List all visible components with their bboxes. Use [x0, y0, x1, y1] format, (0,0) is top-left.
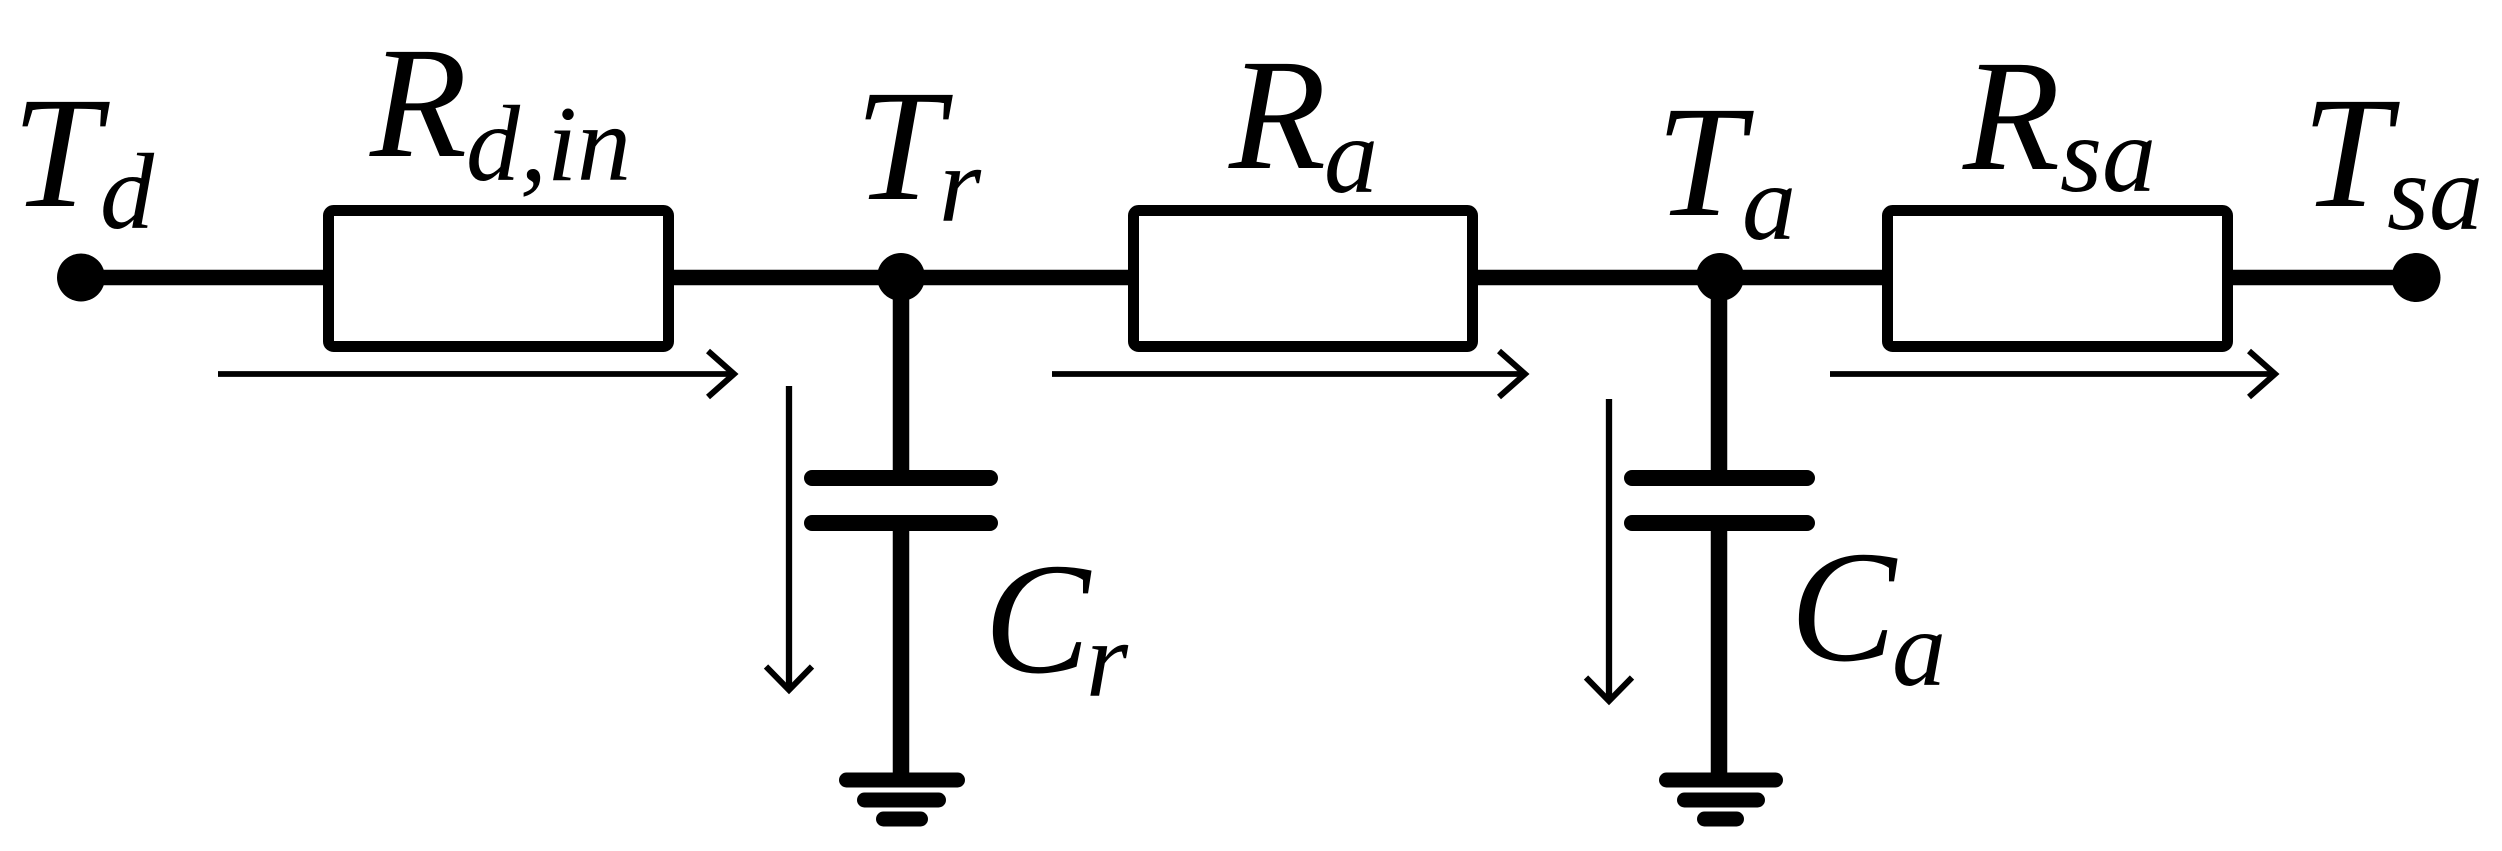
wire R_a to R_sa through node Ta	[1471, 270, 1889, 286]
heat flow arrow into Cr	[766, 386, 812, 690]
svg-text:sa: sa	[2387, 134, 2483, 253]
svg-text:C: C	[1790, 519, 1898, 695]
svg-text:d,in: d,in	[466, 85, 631, 204]
node Td terminal dot	[57, 254, 105, 302]
capacitor label Ca	[1790, 519, 1946, 709]
node Tr junction dot	[877, 253, 925, 301]
resistor label R_d,in	[369, 15, 631, 204]
svg-text:d: d	[100, 133, 155, 252]
wire node Ta down to capacitor Ca	[1711, 277, 1728, 474]
resistor R_a	[1134, 211, 1473, 347]
resistor R_sa	[1888, 211, 2228, 347]
node label Ta	[1656, 74, 1796, 263]
wire R_d,in to R_a through node Tr	[667, 270, 1135, 286]
heat flow arrow through R_a	[1052, 351, 1525, 397]
wire capacitor Cr down to ground	[893, 527, 910, 779]
svg-text:r: r	[939, 126, 982, 245]
svg-text:sa: sa	[2060, 96, 2156, 215]
heat flow arrow into Ca	[1586, 399, 1632, 701]
capacitor Cr bottom plate	[812, 515, 990, 531]
svg-text:R: R	[1962, 28, 2060, 204]
node label Td	[12, 65, 155, 252]
svg-text:T: T	[2302, 65, 2400, 241]
resistor R_d,in	[329, 211, 669, 347]
heat flow arrow through R_d,in	[218, 351, 734, 397]
wire capacitor Ca down to ground	[1711, 527, 1728, 779]
resistor label Ra	[1228, 27, 1378, 216]
node label Tr	[855, 58, 982, 245]
node label Tsa	[2302, 65, 2483, 253]
wire R_sa to Tsa	[2226, 270, 2416, 286]
svg-text:r: r	[1086, 601, 1129, 720]
node Ta junction dot	[1696, 253, 1744, 301]
node Tsa terminal dot	[2392, 253, 2441, 302]
capacitor Ca bottom plate	[1632, 515, 1807, 531]
capacitor Ca top plate	[1632, 470, 1807, 486]
capacitor Cr top plate	[812, 470, 990, 486]
heat flow arrow through R_sa	[1830, 351, 2275, 397]
ground below Cr	[847, 780, 958, 819]
svg-text:a: a	[1742, 144, 1796, 263]
svg-text:C: C	[984, 531, 1092, 707]
wire node Tr down to capacitor Cr	[893, 277, 910, 474]
capacitor label Cr	[984, 531, 1129, 720]
svg-text:R: R	[369, 15, 467, 191]
resistor label Rsa	[1962, 28, 2156, 215]
ground below Ca	[1667, 780, 1776, 819]
svg-text:R: R	[1228, 27, 1326, 203]
svg-text:T: T	[1656, 74, 1754, 250]
svg-text:a: a	[1324, 97, 1378, 216]
svg-text:a: a	[1892, 590, 1946, 709]
svg-text:T: T	[12, 65, 110, 241]
wire Td to R_d,in	[81, 270, 330, 286]
